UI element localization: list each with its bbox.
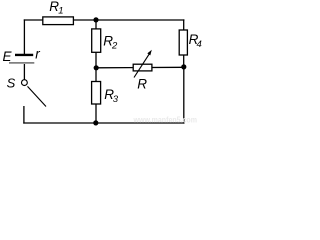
wire left vertical upper (corner to battery): [23, 19, 25, 54]
wire right vertical (node D to bottom-right corner): [183, 67, 185, 124]
node B (middle junction): [94, 65, 99, 70]
wire node B to R3: [95, 68, 97, 82]
svg-text:R: R: [137, 76, 147, 91]
wire node B to rheostat and to right branch: [96, 66, 184, 69]
svg-text:S: S: [7, 75, 16, 90]
resistor R4: [179, 30, 202, 55]
svg-text:r: r: [35, 46, 40, 61]
wire R2 to node B: [95, 52, 97, 68]
svg-text:2: 2: [111, 40, 118, 51]
wire bottom: [23, 122, 184, 124]
node A (top junction): [93, 17, 98, 22]
switch S: [7, 75, 46, 106]
wire top from left corner to R1: [24, 19, 43, 21]
wire top-right corner to R4: [183, 19, 185, 30]
wire top from R1 to node A: [73, 19, 96, 21]
resistor R2: [92, 29, 118, 52]
wire R3 to bottom node C: [95, 104, 97, 123]
svg-text:4: 4: [197, 39, 202, 50]
node C (bottom junction): [93, 120, 98, 125]
svg-text:3: 3: [113, 94, 119, 105]
wire R4 to node D: [183, 55, 185, 67]
wire battery to switch: [23, 64, 25, 80]
wire top from node A to top-right corner: [96, 19, 184, 21]
svg-text:E: E: [3, 49, 13, 64]
svg-text:www.manfen5.com: www.manfen5.com: [133, 115, 197, 124]
svg-text:1: 1: [58, 5, 63, 16]
wire node A to R2: [95, 20, 97, 30]
resistor R1: [43, 0, 74, 25]
rheostat R (variable resistor): [133, 50, 152, 92]
wire left vertical lower (switch contact to bottom corner): [23, 106, 25, 124]
battery E with internal resistance r: [3, 46, 41, 64]
node D (right junction): [181, 64, 186, 69]
resistor R3: [92, 82, 119, 106]
